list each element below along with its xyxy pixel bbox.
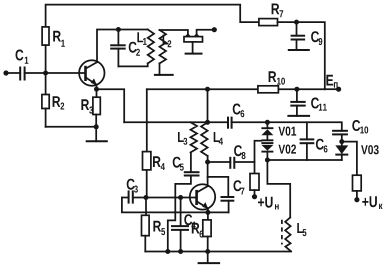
wire V03 node to Uk resistor (342, 142, 357, 176)
trimmer right lead to terminal (194, 30, 214, 37)
wire L5 path (267, 160, 290, 218)
resistor bias Uh (250, 174, 259, 197)
wire collector Q2 (207, 162, 209, 186)
varicap V02 (261, 145, 296, 161)
trimmer body box (184, 37, 203, 42)
resistor R2 (42, 73, 64, 127)
wire varicap bias tap (255, 141, 262, 174)
node ground C5 (165, 249, 170, 254)
inductor L4 (201, 122, 223, 162)
capacitor C7 (221, 180, 245, 212)
wire rail to C10 corner (267, 122, 341, 131)
ground under R3 (86, 127, 108, 142)
transistor Q2 (190, 184, 215, 212)
ground bar C11 (287, 115, 310, 117)
node collector tank (116, 27, 148, 32)
capacitor C10 (332, 120, 368, 142)
capacitor C9 (291, 22, 323, 50)
wire R7 to C9 node and right edge (278, 22, 325, 89)
node ground C4 (178, 249, 183, 254)
varicap capacitor bars (261, 140, 273, 143)
resistor R4 (143, 152, 165, 170)
wire L2 top to trimmer (160, 30, 188, 34)
inductor L1 (137, 30, 154, 64)
varicap V01 (261, 122, 296, 139)
wire rail to R4 (146, 89, 148, 151)
capacitor C3 (122, 179, 146, 204)
capacitor C2 (110, 30, 140, 67)
capacitor C11 (290, 89, 327, 116)
node C9 (294, 20, 299, 25)
wire resonator rail y122 (124, 121, 228, 123)
resistor R6 (192, 212, 211, 251)
inductor L2 (160, 30, 172, 63)
capacitor C6 series (228, 104, 267, 129)
terminal dot right of trimmer (212, 27, 217, 32)
node ground R6 (205, 249, 210, 254)
node L4 feed top (205, 87, 210, 123)
inductor L5 (285, 218, 306, 252)
node varicap bottom (265, 158, 270, 163)
terminal +Uk (354, 196, 382, 209)
resistor R7 (259, 4, 283, 26)
terminal +Uh (252, 194, 279, 209)
resistor R1 (42, 27, 65, 73)
wire tank bottom (118, 63, 147, 66)
resistor bias Uk (353, 175, 362, 200)
wire R4 bottom to base node (146, 170, 148, 198)
trimmer left contact arrow (185, 33, 191, 36)
diode V03 (335, 142, 378, 160)
ground under trimmer (185, 42, 203, 54)
node V03 top (339, 139, 344, 144)
wire collector Q1 up (97, 30, 118, 63)
node L3 L4 top (205, 120, 210, 125)
resistor R10 (258, 71, 325, 93)
wire base node to C4 (180, 198, 182, 227)
capacitor C5 (173, 152, 200, 184)
wire C3 left to emitter rail (122, 198, 229, 213)
ground bar C9 (288, 49, 310, 51)
wire supply rail y89 (147, 88, 258, 90)
terminal En (325, 75, 341, 92)
capacitor C4 (171, 214, 196, 251)
capacitor C6 second (300, 122, 328, 160)
node L4 bottom (205, 160, 210, 165)
wire C5 to ground (168, 184, 176, 252)
resistor R3 (81, 89, 100, 127)
resistor R5 (142, 198, 166, 252)
ground under L2 (154, 63, 174, 75)
node C11 (294, 87, 299, 92)
capacitor C1 (6, 50, 46, 81)
ground symbol main (198, 252, 221, 264)
node base Q2 junction C4 (178, 195, 197, 200)
node base Q1 (43, 71, 85, 76)
capacitor C8 (208, 145, 255, 169)
wire collector branch to C7 (208, 177, 229, 197)
transistor Q1 (79, 60, 104, 89)
dashed core L5 (281, 220, 283, 245)
node base Q2 junction R4 R5 (144, 195, 181, 200)
wire ground rail bottom (145, 251, 291, 253)
inductor L3 (178, 122, 197, 152)
wire R2 bottom to R3 bottom (46, 126, 97, 128)
node emitter Q2 (205, 210, 210, 215)
node varicap top (265, 120, 270, 125)
node R2 R3 junction (94, 124, 99, 129)
wire emitter Q1 rail (94, 87, 124, 123)
input terminal (3, 70, 8, 75)
wire varicap bottom rail (267, 159, 341, 161)
wire top rail from R1 to R7 (46, 5, 259, 27)
